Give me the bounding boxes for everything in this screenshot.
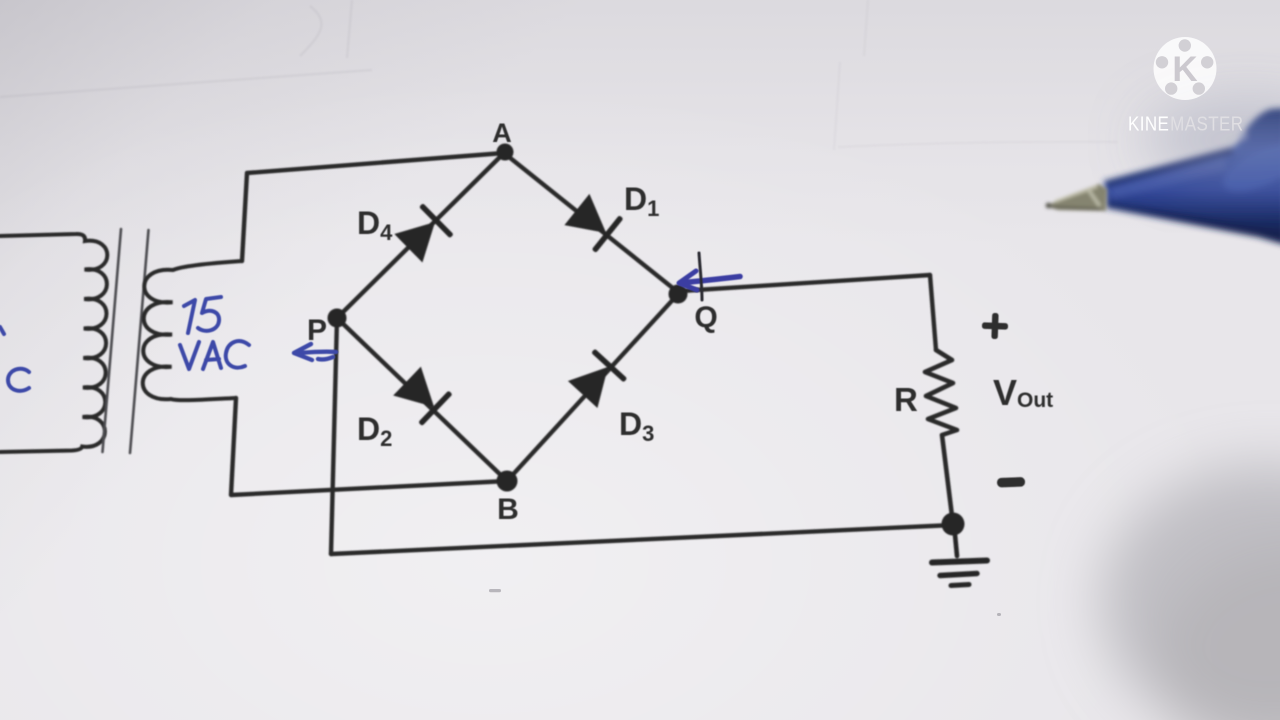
svg-text:D4: D4 xyxy=(357,205,393,245)
diode D2 xyxy=(392,365,453,426)
faint paper creases and impressions xyxy=(0,0,1118,150)
svg-text:D2: D2 xyxy=(357,411,392,451)
kinemaster watermark text xyxy=(1128,112,1244,135)
handwritten 15 VAC (blue) xyxy=(180,297,249,369)
kinemaster watermark logo xyxy=(1154,37,1217,100)
node P junction xyxy=(328,309,347,328)
svg-text:R: R xyxy=(894,381,918,418)
pen out-of-focus haze behind watermark text xyxy=(1143,98,1280,182)
svg-text:D3: D3 xyxy=(619,406,654,446)
shadow blob bottom-right xyxy=(1100,464,1280,720)
faint speck marks xyxy=(489,589,1001,616)
wire node P down xyxy=(331,318,337,554)
resistor R xyxy=(925,350,957,524)
transformer T1 secondary winding xyxy=(143,261,242,400)
wire secondary-top to node A xyxy=(242,153,504,261)
node B junction xyxy=(497,471,518,492)
svg-text:KINEMASTER: KINEMASTER xyxy=(1128,112,1244,135)
plus sign xyxy=(982,313,1009,340)
svg-text:D1: D1 xyxy=(624,181,659,221)
wire bottom run to output node xyxy=(331,525,953,554)
svg-text:K: K xyxy=(1172,50,1197,89)
svg-text:B: B xyxy=(497,493,519,526)
minus sign xyxy=(997,477,1025,487)
node Q junction xyxy=(669,285,688,304)
node A junction xyxy=(497,144,514,161)
ground xyxy=(932,524,987,586)
wire bridge edge P-A xyxy=(337,153,504,318)
wire bridge edge P-B xyxy=(337,318,507,481)
transformer T1 primary winding xyxy=(0,234,107,452)
diode D3 xyxy=(566,349,627,410)
diode D4 xyxy=(393,203,454,264)
wire bridge edge B-Q xyxy=(507,293,679,481)
wire node Q to right xyxy=(681,275,930,291)
svg-text:VOut: VOut xyxy=(993,372,1053,413)
wire down to resistor xyxy=(930,275,936,350)
handwritten mark at Q (blue + dark slash) xyxy=(679,253,740,300)
handwritten arrow at P (blue) xyxy=(294,344,336,360)
wire secondary-bottom step down to node B xyxy=(231,398,507,495)
diode D1 xyxy=(563,192,623,253)
pen (blurred, top right) xyxy=(1104,108,1280,245)
output node junction xyxy=(942,513,965,536)
svg-text:A: A xyxy=(492,118,512,148)
pen metal tip (blurred) xyxy=(1046,184,1107,211)
wire bridge edge A-Q xyxy=(504,153,679,293)
transformer core xyxy=(103,229,149,453)
svg-text:Q: Q xyxy=(694,301,717,334)
handwritten c (blue, cut off at left edge) xyxy=(0,327,29,391)
